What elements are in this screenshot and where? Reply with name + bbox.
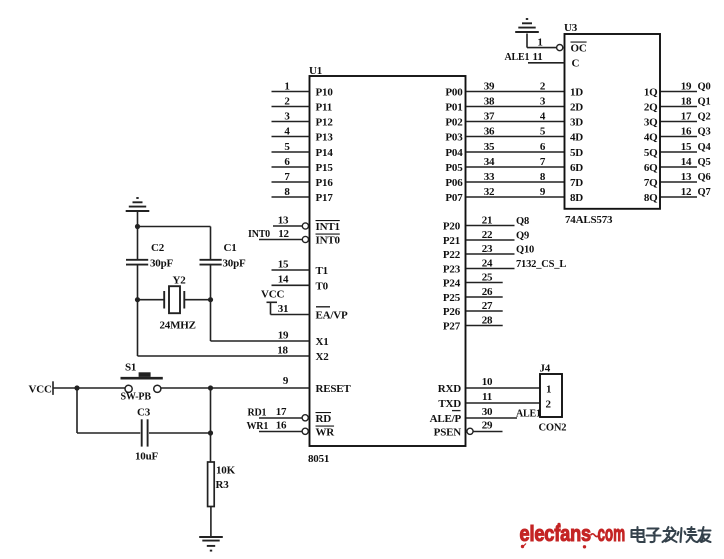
svg-text:WR: WR (316, 427, 336, 439)
svg-text:37: 37 (484, 110, 495, 122)
svg-text:ALE/P: ALE/P (430, 413, 462, 425)
U1 pin 13 inversion bubble (302, 223, 308, 229)
capacitor C2 plates (126, 260, 148, 265)
op U1 8051 MCU body (310, 76, 466, 446)
wire C3 right lead (149, 432, 211, 434)
wire bus P02 from U1 pin 37 to U3 pin 4 (466, 121, 564, 123)
U1 pin 16 inversion bubble (302, 428, 308, 434)
svg-text:J4: J4 (540, 363, 551, 375)
svg-text:CON2: CON2 (539, 423, 567, 434)
svg-text:13: 13 (681, 171, 692, 183)
wire U1 pin 6 (P15) stub (272, 166, 310, 168)
svg-text:INT0: INT0 (316, 235, 341, 247)
wire U1 pin 5 (P14) stub (272, 151, 310, 153)
capacitor C1 plates (200, 260, 222, 265)
svg-text:S1: S1 (125, 362, 136, 374)
U1 pin 29 inversion bubble (467, 428, 473, 434)
svg-text:19: 19 (681, 80, 692, 92)
svg-text:13: 13 (278, 215, 289, 227)
svg-text:P15: P15 (316, 162, 334, 174)
junction at C2 top node (135, 224, 140, 229)
crystal Y2 symbol (164, 286, 184, 313)
svg-text:26: 26 (482, 286, 493, 298)
svg-text:P14: P14 (316, 147, 334, 159)
svg-text:19: 19 (278, 330, 289, 342)
junction crystal left (135, 297, 140, 302)
svg-text:7D: 7D (570, 177, 583, 189)
wire U3 pin 17 (3Q) stub (661, 121, 698, 123)
svg-text:6Q: 6Q (644, 162, 658, 174)
wire U3 pin 19 (1Q) stub (661, 91, 698, 93)
svg-text:RD1: RD1 (248, 407, 267, 418)
svg-text:EA/VP: EA/VP (316, 310, 348, 322)
wire U1 pin 27 (P26) stub (466, 310, 503, 312)
svg-text:1: 1 (284, 80, 289, 92)
svg-text:3: 3 (540, 95, 546, 107)
wire bus P06 from U1 pin 33 to U3 pin 8 (466, 181, 564, 183)
wire U3 pin 11 (C) (528, 62, 565, 64)
wire U1 pin 18 (X2) from crystal (138, 355, 310, 357)
wire down to C1 (210, 227, 212, 260)
wire U1 pin 28 (P27) stub (466, 325, 503, 327)
svg-text:P20: P20 (443, 221, 461, 233)
U1 pin 17 inversion bubble (302, 415, 308, 421)
wire U1 pin 12 (INT0) stub (259, 239, 302, 241)
svg-text:RXD: RXD (438, 383, 461, 395)
svg-text:6: 6 (540, 141, 546, 153)
svg-text:WR1: WR1 (247, 421, 269, 432)
switch S1 terminal circles (125, 385, 161, 392)
svg-text:P10: P10 (316, 87, 334, 99)
wire U1 pin 22 (P21) stub (466, 239, 515, 241)
svg-text:P11: P11 (316, 102, 333, 114)
ground symbol below R3 (199, 537, 223, 551)
svg-text:1: 1 (546, 384, 551, 396)
svg-text:4Q: 4Q (644, 132, 658, 144)
svg-text:ALE1: ALE1 (505, 52, 530, 63)
Chinese brand text dianzi fashaoyou (632, 527, 711, 542)
svg-text:P13: P13 (316, 132, 334, 144)
svg-text:P24: P24 (443, 278, 461, 290)
svg-text:Q6: Q6 (698, 172, 711, 183)
wire bus P07 from U1 pin 32 to U3 pin 9 (466, 196, 564, 198)
wire U1 pin 1 (P10) stub (272, 91, 310, 93)
wire U1 pin 8 (P17) stub (272, 196, 310, 198)
svg-text:2D: 2D (570, 102, 583, 114)
svg-text:24MHZ: 24MHZ (160, 320, 196, 332)
junction crystal right (208, 297, 213, 302)
svg-text:7Q: 7Q (644, 177, 658, 189)
svg-text:U1: U1 (309, 65, 322, 77)
latch U3 74ALS573 body (565, 34, 661, 209)
svg-text:Q7: Q7 (698, 187, 711, 198)
svg-text:7: 7 (284, 171, 290, 183)
wire U1 pin 23 (P22) stub (466, 253, 515, 255)
wire U1 pin 29 (PSEN) stub (473, 431, 502, 433)
svg-text:15: 15 (681, 141, 692, 153)
wire U1 pin 26 (P25) stub (466, 296, 503, 298)
svg-text:15: 15 (278, 258, 289, 270)
wire U1 pin 10 (RXD) to J4 pin 1 (466, 387, 540, 389)
svg-text:5Q: 5Q (644, 147, 658, 159)
wire U1 pin 15 (T1) stub (272, 269, 310, 271)
wire U1 pin 21 (P20) stub (466, 225, 515, 227)
wire U1 pin 9 (RESET) net left of S1 (53, 387, 125, 389)
svg-text:P01: P01 (445, 102, 462, 114)
switch S1 button nub (139, 372, 151, 377)
svg-text:8D: 8D (570, 192, 583, 204)
svg-text:INT0: INT0 (248, 229, 270, 240)
wire X2 branch down (137, 300, 139, 356)
wire ground stem to OC (526, 34, 528, 48)
connector J4 CON2 body (540, 374, 562, 417)
wire U1 pin 16 (WR) stub (259, 431, 302, 433)
svg-text:RD: RD (316, 413, 332, 425)
svg-text:C2: C2 (151, 242, 165, 254)
svg-text:Q8: Q8 (516, 216, 529, 227)
svg-text:8Q: 8Q (644, 192, 658, 204)
svg-text:com: com (598, 521, 626, 546)
svg-text:30pF: 30pF (150, 258, 174, 270)
svg-text:9: 9 (283, 375, 289, 387)
svg-text:P04: P04 (445, 147, 463, 159)
svg-text:SW-PB: SW-PB (121, 392, 152, 403)
svg-text:29: 29 (482, 420, 493, 432)
svg-text:12: 12 (278, 228, 289, 240)
svg-text:P07: P07 (445, 192, 463, 204)
svg-text:16: 16 (276, 420, 287, 432)
svg-text:6D: 6D (570, 162, 583, 174)
svg-text:18: 18 (681, 95, 692, 107)
wire VCC tick at pin 31 (267, 301, 278, 303)
wire U3 pin 13 (7Q) stub (661, 181, 698, 183)
svg-text:14: 14 (278, 274, 289, 286)
wire U1 pin 24 (P23) stub (466, 268, 515, 270)
overbar over EA of EA/VP (316, 306, 330, 308)
svg-text:P17: P17 (316, 192, 334, 204)
svg-text:4: 4 (284, 125, 290, 137)
svg-text:Q10: Q10 (516, 245, 534, 256)
svg-text:Q2: Q2 (698, 112, 711, 123)
svg-text:6: 6 (284, 156, 290, 168)
svg-text:P16: P16 (316, 177, 334, 189)
svg-text:25: 25 (482, 271, 493, 283)
svg-text:TXD: TXD (438, 398, 461, 410)
svg-text:30pF: 30pF (223, 258, 247, 270)
svg-text:P06: P06 (445, 177, 463, 189)
wire ground stem to node (137, 211, 139, 227)
svg-text:10K: 10K (216, 465, 236, 477)
svg-text:Q0: Q0 (698, 82, 711, 93)
svg-text:11: 11 (482, 391, 492, 403)
svg-text:24: 24 (482, 257, 493, 269)
wire U1 pin 19 (X1) from crystal (211, 340, 310, 342)
svg-text:18: 18 (277, 345, 288, 357)
wire U1 pin 13 (INT1) stub (273, 225, 302, 227)
svg-text:8051: 8051 (308, 453, 329, 465)
svg-text:R3: R3 (216, 479, 230, 491)
svg-text:1D: 1D (570, 87, 583, 99)
wire down to C3 (76, 388, 78, 433)
wire down to C2 (137, 227, 139, 260)
svg-text:elecfans: elecfans (520, 521, 592, 546)
svg-text:30: 30 (482, 406, 493, 418)
svg-text:P22: P22 (443, 249, 461, 261)
wire U1 pin 17 (RD) stub (259, 417, 302, 419)
svg-text:38: 38 (484, 95, 495, 107)
wire bus P04 from U1 pin 35 to U3 pin 6 (466, 151, 564, 153)
wire U1 pin 2 (P11) stub (272, 106, 310, 108)
wire crystal right lead (185, 299, 211, 301)
svg-text:INT1: INT1 (316, 221, 340, 233)
wire bus P00 from U1 pin 39 to U3 pin 2 (466, 91, 564, 93)
svg-text:39: 39 (484, 80, 495, 92)
svg-text:Q5: Q5 (698, 157, 711, 168)
wire C1 to crystal node (210, 265, 212, 300)
wire C2 to crystal node (137, 265, 139, 300)
wire VCC drop to pin 31 (270, 302, 272, 314)
svg-text:17: 17 (681, 110, 692, 122)
wire bus P03 from U1 pin 36 to U3 pin 5 (466, 136, 564, 138)
svg-text:34: 34 (484, 156, 495, 168)
svg-text:10: 10 (482, 376, 493, 388)
junction RESET/R3 branch (208, 385, 213, 390)
svg-text:8: 8 (540, 171, 546, 183)
ground symbol at U3 OC (515, 19, 539, 32)
svg-text:12: 12 (681, 186, 692, 198)
svg-text:ALE1: ALE1 (516, 409, 541, 420)
svg-text:P21: P21 (443, 235, 460, 247)
svg-text:16: 16 (681, 125, 692, 137)
wire bus P05 from U1 pin 34 to U3 pin 7 (466, 166, 564, 168)
svg-text:P26: P26 (443, 306, 461, 318)
svg-text:27: 27 (482, 300, 493, 312)
wire R3 to ground (210, 507, 212, 538)
wire U1 pin 25 (P24) stub (466, 282, 503, 284)
svg-text:Y2: Y2 (173, 275, 187, 287)
svg-text:1Q: 1Q (644, 87, 658, 99)
svg-text:2: 2 (546, 399, 552, 411)
wire U3 pin 14 (6Q) stub (661, 166, 698, 168)
elecfans.com logo (red) (520, 521, 626, 549)
svg-text:U3: U3 (564, 22, 578, 34)
svg-text:X1: X1 (316, 336, 329, 348)
svg-text:4D: 4D (570, 132, 583, 144)
wire U1 pin 30 (ALE) stub (466, 417, 517, 419)
svg-text:RESET: RESET (316, 383, 352, 395)
svg-text:35: 35 (484, 141, 495, 153)
svg-text:74ALS573: 74ALS573 (565, 214, 613, 226)
wire U3 pin 18 (2Q) stub (661, 106, 698, 108)
svg-text:P27: P27 (443, 321, 461, 333)
svg-text:Q9: Q9 (516, 231, 529, 242)
wire down to R3 (210, 388, 212, 462)
resistor R3 body (208, 462, 215, 507)
svg-text:3D: 3D (570, 117, 583, 129)
svg-text:T1: T1 (316, 265, 328, 277)
svg-text:7: 7 (540, 156, 546, 168)
svg-text:36: 36 (484, 125, 495, 137)
svg-text:C1: C1 (224, 242, 237, 254)
overbar over P of ALE/P (452, 410, 461, 412)
svg-text:C: C (572, 58, 580, 70)
wire U1 pin 31 (EA/VP) stub (271, 314, 310, 316)
svg-text:P00: P00 (445, 87, 463, 99)
svg-text:8: 8 (284, 186, 290, 198)
svg-text:22: 22 (482, 229, 493, 241)
svg-text:Q4: Q4 (698, 142, 712, 153)
svg-text:7132_CS_L: 7132_CS_L (516, 259, 566, 270)
svg-text:P25: P25 (443, 292, 461, 304)
wire U1 pin 7 (P16) stub (272, 181, 310, 183)
U1 pin 12 inversion bubble (302, 236, 308, 242)
wire bus P01 from U1 pin 38 to U3 pin 3 (466, 106, 564, 108)
svg-text:2: 2 (540, 80, 546, 92)
switch S1 SW-PB actuator bar (121, 377, 163, 380)
U3 pin 1 inversion bubble (557, 45, 563, 51)
svg-text:21: 21 (482, 214, 493, 226)
svg-text:32: 32 (484, 186, 495, 198)
wire U1 pin 9 (RESET) net right of S1 (161, 387, 310, 389)
wire U3 pin 16 (4Q) stub (661, 136, 698, 138)
svg-text:PSEN: PSEN (434, 427, 462, 439)
wire U3 pin 12 (8Q) stub (661, 196, 698, 198)
svg-text:17: 17 (276, 406, 287, 418)
svg-text:2: 2 (284, 95, 290, 107)
capacitor C3 plates (142, 419, 148, 446)
wire U1 pin 4 (P13) stub (272, 136, 310, 138)
svg-text:P03: P03 (445, 132, 463, 144)
svg-text:28: 28 (482, 314, 493, 326)
svg-text:OC: OC (571, 43, 587, 55)
svg-text:11: 11 (533, 51, 543, 63)
svg-text:23: 23 (482, 243, 493, 255)
svg-text:VCC: VCC (29, 384, 52, 396)
wire X1 branch down (210, 300, 212, 341)
svg-text:X2: X2 (316, 351, 330, 363)
junction VCC/C3 branch (74, 385, 79, 390)
svg-text:C3: C3 (137, 407, 151, 419)
svg-text:P12: P12 (316, 117, 334, 129)
svg-text:5: 5 (540, 125, 546, 137)
svg-text:P23: P23 (443, 264, 461, 276)
svg-text:10uF: 10uF (135, 451, 159, 463)
svg-text:31: 31 (278, 303, 289, 315)
svg-text:P02: P02 (445, 117, 463, 129)
svg-text:2Q: 2Q (644, 102, 658, 114)
wire C3 left lead (77, 432, 140, 434)
svg-text:5: 5 (284, 141, 290, 153)
svg-text:Q3: Q3 (698, 127, 711, 138)
ground symbol above C2/C1 (126, 198, 150, 211)
wire U3 pin 1 (OC) (527, 47, 557, 49)
svg-text:3Q: 3Q (644, 117, 658, 129)
svg-text:T0: T0 (316, 280, 329, 292)
svg-text:14: 14 (681, 156, 692, 168)
svg-text:P05: P05 (445, 162, 463, 174)
svg-text:1: 1 (537, 37, 542, 49)
junction C3/R3 node (208, 430, 213, 435)
wire U1 pin 14 (T0) stub (272, 284, 310, 286)
wire U1 pin 11 (TXD) to J4 pin 2 (466, 402, 540, 404)
wire node across to C1 branch (138, 226, 211, 228)
svg-text:33: 33 (484, 171, 495, 183)
svg-text:9: 9 (540, 186, 546, 198)
svg-text:4: 4 (540, 110, 546, 122)
svg-text:5D: 5D (570, 147, 583, 159)
wire crystal left lead (138, 299, 164, 301)
svg-text:VCC: VCC (261, 289, 284, 301)
svg-text:Q1: Q1 (698, 97, 711, 108)
VCC terminal tick (52, 381, 54, 395)
wire U3 pin 15 (5Q) stub (661, 151, 698, 153)
svg-text:3: 3 (284, 110, 290, 122)
wire U1 pin 3 (P12) stub (272, 121, 310, 123)
